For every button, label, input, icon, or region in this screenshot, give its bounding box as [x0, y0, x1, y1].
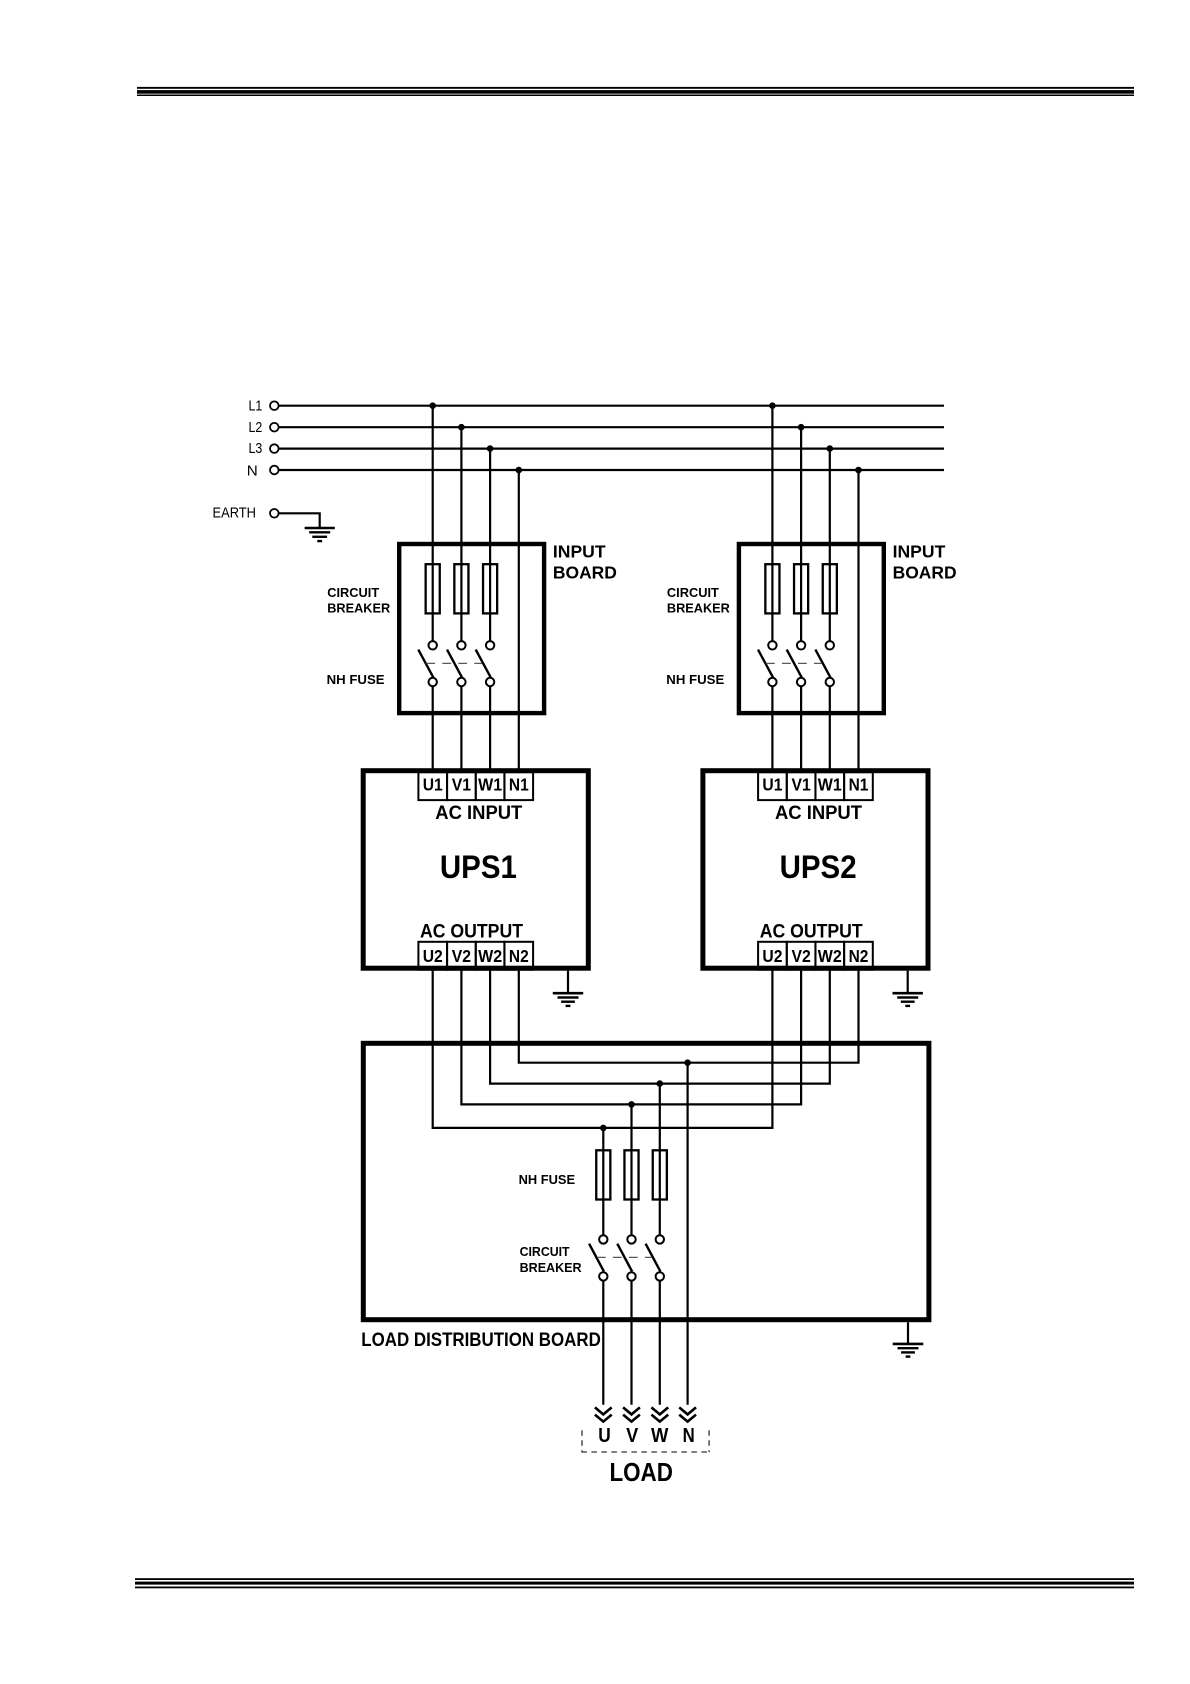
wire IB2 L1 switch to terminal [771, 686, 773, 772]
UPS unit UPS1 enclosure [363, 771, 588, 969]
junction N tap [684, 1059, 691, 1066]
wire IB2 L2 switch to terminal [800, 686, 802, 772]
breaker switch load U [589, 1235, 607, 1280]
pin W1 (UPS2) [815, 772, 844, 800]
pin N2 (UPS1) [504, 942, 533, 970]
wire IB1 L3 switch to terminal [489, 686, 491, 772]
wire L1 drop into UPS2 input board [771, 406, 773, 642]
fuse IB1 L2 [454, 564, 468, 613]
pin V2 (UPS2) [787, 942, 816, 970]
arrow load feed U [595, 1407, 612, 1421]
pin W2 (UPS1) [476, 942, 505, 970]
svg-text:U: U [598, 1425, 611, 1447]
terminal L2 [249, 420, 279, 436]
junction L3/UPS2 [827, 445, 834, 452]
wire IB1 L2 switch to terminal [460, 686, 462, 772]
pin W2 (UPS2) [815, 942, 844, 970]
wire load V breaker to output [630, 1281, 632, 1405]
svg-text:LOAD DISTRIBUTION BOARD: LOAD DISTRIBUTION BOARD [361, 1329, 601, 1351]
wire W tap to fuse/breaker [659, 1084, 661, 1236]
input board IB2 enclosure [739, 544, 884, 713]
breaker switch IB2 L1 [758, 641, 777, 686]
svg-text:AC INPUT: AC INPUT [435, 802, 522, 824]
bus wire L3 [279, 448, 944, 450]
wire U tap to fuse/breaker [602, 1128, 604, 1235]
terminal L3 [249, 441, 279, 457]
junction L1/UPS2 [769, 402, 776, 409]
breaker switch IB1 L3 [476, 641, 495, 686]
wire EARTH to ground [279, 513, 320, 527]
wire UPS2 chassis to ground [907, 971, 909, 993]
svg-text:UPS2: UPS2 [780, 849, 857, 885]
label CIRCUIT BREAKER (IB2) [667, 585, 730, 615]
pin N2 (UPS2) [844, 942, 873, 970]
wire UPS1 chassis to ground [567, 971, 569, 993]
load distribution board enclosure [363, 1043, 929, 1319]
label CIRCUIT BREAKER (load board) [520, 1244, 582, 1275]
junction L1/UPS1 [429, 402, 436, 409]
svg-text:W2: W2 [818, 946, 842, 966]
svg-text:CIRCUIT: CIRCUIT [327, 585, 379, 600]
svg-text:BOARD: BOARD [553, 563, 617, 583]
svg-text:NH FUSE: NH FUSE [666, 672, 724, 687]
breaker switch IB1 L1 [418, 641, 437, 686]
junction L3/UPS1 [487, 445, 494, 452]
junction N/UPS1 [516, 467, 523, 474]
svg-text:L1: L1 [249, 398, 263, 414]
svg-text:BREAKER: BREAKER [667, 600, 730, 615]
fuse load U [596, 1150, 610, 1199]
wire U2 outputs tie (UPS1+UPS2 U) [433, 970, 773, 1128]
svg-text:N2: N2 [509, 946, 529, 966]
fuse load W [653, 1150, 667, 1199]
terminal EARTH [213, 506, 279, 522]
svg-text:L2: L2 [249, 420, 263, 436]
svg-text:INPUT: INPUT [893, 542, 946, 562]
svg-text:CIRCUIT: CIRCUIT [520, 1244, 570, 1259]
fuse load V [624, 1150, 638, 1199]
fuse IB1 L1 [426, 564, 440, 613]
svg-text:W1: W1 [478, 775, 502, 795]
arrow load feed V [623, 1407, 640, 1421]
fuse IB2 L3 [823, 564, 837, 613]
svg-text:V2: V2 [452, 946, 471, 966]
wire N tap to load [686, 1063, 688, 1405]
wire N drop to UPS1 terminal N1 [518, 470, 520, 772]
ground symbol UPS1 [553, 993, 583, 1006]
breaker switch IB1 L2 [447, 641, 466, 686]
junction L2/UPS1 [458, 424, 465, 431]
ground symbol load board [893, 1344, 924, 1357]
svg-text:N: N [247, 463, 258, 479]
wire IB2 L3 switch to terminal [829, 686, 831, 772]
svg-text:AC INPUT: AC INPUT [775, 802, 862, 824]
svg-text:AC OUTPUT: AC OUTPUT [420, 920, 523, 942]
pin V1 (UPS2) [787, 772, 816, 800]
svg-text:N2: N2 [849, 946, 869, 966]
svg-text:V2: V2 [791, 946, 810, 966]
svg-text:AC OUTPUT: AC OUTPUT [760, 920, 863, 942]
svg-text:L3: L3 [249, 441, 263, 457]
fuse IB2 L1 [765, 564, 779, 613]
arrow load feed N [679, 1407, 696, 1421]
svg-text:LOAD: LOAD [609, 1459, 673, 1487]
fuse IB1 L3 [483, 564, 497, 613]
wire L2 drop into UPS2 input board [800, 427, 802, 641]
arrow load feed W [651, 1407, 668, 1421]
fuse IB2 L2 [794, 564, 808, 613]
bus wire L1 [279, 405, 944, 407]
load outline (dashed) [581, 1430, 709, 1452]
pin W1 (UPS1) [476, 772, 505, 800]
breaker switch IB2 L2 [787, 641, 806, 686]
svg-text:BREAKER: BREAKER [327, 600, 390, 615]
UPS unit UPS2 enclosure [703, 771, 928, 969]
svg-text:NH FUSE: NH FUSE [519, 1172, 576, 1187]
wire V2 outputs tie (UPS1+UPS2 V) [461, 970, 801, 1104]
wire V tap to fuse/breaker [630, 1104, 632, 1235]
bus wire L2 [279, 426, 944, 428]
svg-text:CIRCUIT: CIRCUIT [667, 585, 719, 600]
breaker switch load V [617, 1235, 635, 1280]
svg-text:V: V [626, 1425, 639, 1447]
svg-text:NH FUSE: NH FUSE [327, 672, 385, 687]
pin U1 (UPS1) [418, 772, 447, 800]
svg-text:V1: V1 [791, 775, 810, 795]
pin U2 (UPS2) [758, 942, 787, 970]
terminal L1 [249, 398, 279, 414]
label INPUT BOARD (IB2) [893, 542, 957, 583]
svg-text:EARTH: EARTH [213, 506, 257, 522]
pin U2 (UPS1) [418, 942, 447, 970]
svg-text:BREAKER: BREAKER [520, 1260, 582, 1275]
wire load U breaker to output [602, 1281, 604, 1405]
label CIRCUIT BREAKER (IB1) [327, 585, 390, 615]
wire N drop to UPS2 terminal N1 [857, 470, 859, 772]
wire load W breaker to output [659, 1281, 661, 1405]
label INPUT BOARD (IB1) [553, 542, 617, 583]
breaker switch IB2 L3 [815, 641, 834, 686]
wire load board chassis to ground [907, 1322, 909, 1343]
svg-text:V1: V1 [452, 775, 471, 795]
pin N1 (UPS2) [844, 772, 873, 800]
svg-text:BOARD: BOARD [893, 563, 957, 583]
wire L2 drop into UPS1 input board [460, 427, 462, 641]
svg-text:W: W [651, 1425, 669, 1447]
wire L1 drop into UPS1 input board [432, 406, 434, 642]
svg-text:U2: U2 [762, 946, 782, 966]
junction W tap [657, 1080, 664, 1087]
junction N/UPS2 [855, 467, 862, 474]
svg-text:U1: U1 [423, 775, 443, 795]
junction V tap [628, 1101, 635, 1108]
svg-text:W1: W1 [818, 775, 842, 795]
breaker coupling link IB2 [766, 662, 822, 664]
pin N1 (UPS1) [504, 772, 533, 800]
breaker coupling link IB1 [426, 662, 482, 664]
pin U1 (UPS2) [758, 772, 787, 800]
terminal N [247, 463, 279, 479]
ground symbol UPS2 [893, 993, 923, 1006]
bus wire N [279, 469, 944, 471]
wire L3 drop into UPS2 input board [829, 449, 831, 642]
wire L3 drop into UPS1 input board [489, 449, 491, 642]
svg-text:U2: U2 [423, 946, 443, 966]
svg-text:W2: W2 [478, 946, 502, 966]
svg-text:N: N [683, 1425, 695, 1447]
svg-text:U1: U1 [762, 775, 782, 795]
pin V2 (UPS1) [447, 942, 476, 970]
svg-text:UPS1: UPS1 [440, 849, 517, 885]
svg-text:N1: N1 [509, 775, 529, 795]
svg-text:INPUT: INPUT [553, 542, 606, 562]
breaker coupling link (load board) [597, 1256, 652, 1258]
breaker switch load W [646, 1235, 664, 1280]
junction L2/UPS2 [798, 424, 805, 431]
wire IB1 L1 switch to terminal [432, 686, 434, 772]
svg-text:N1: N1 [849, 775, 869, 795]
junction U tap [600, 1125, 607, 1132]
wire W2 outputs tie (UPS1+UPS2 W) [490, 970, 830, 1083]
pin V1 (UPS1) [447, 772, 476, 800]
input board IB1 enclosure [399, 544, 544, 713]
ground symbol EARTH [305, 528, 335, 541]
wire N2 outputs tie (UPS1+UPS2 N) [519, 970, 859, 1062]
